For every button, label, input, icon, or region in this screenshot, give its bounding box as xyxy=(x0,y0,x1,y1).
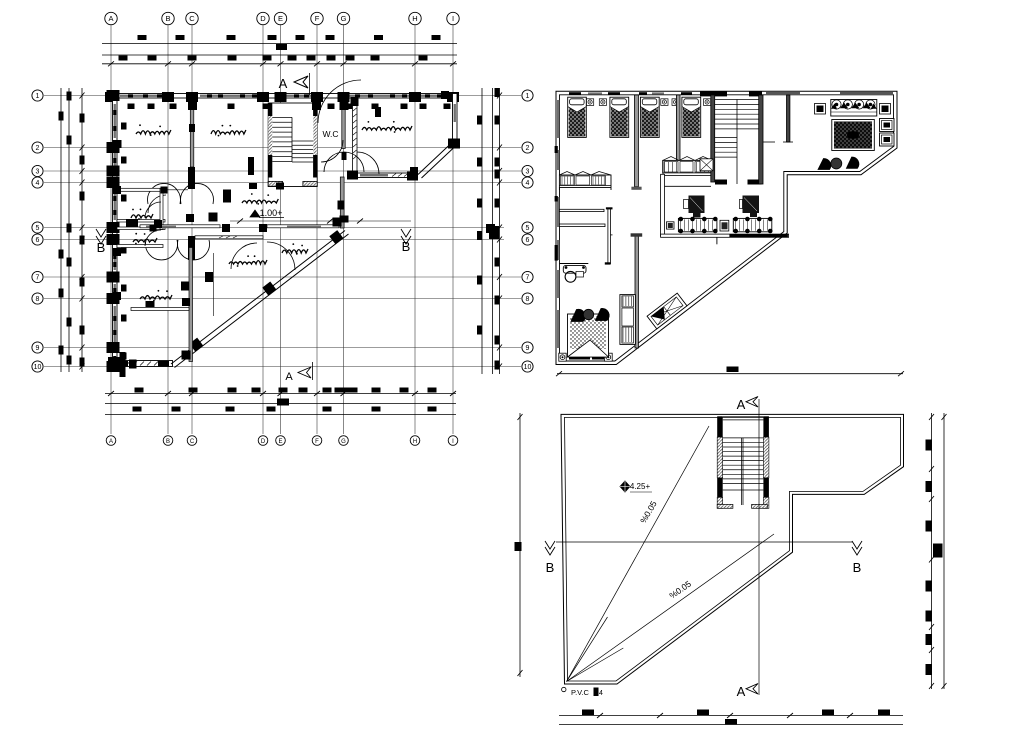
svg-text:B: B xyxy=(546,560,555,575)
WC walls xyxy=(342,98,345,149)
svg-text:P.V.C: P.V.C xyxy=(571,688,590,697)
svg-text:A: A xyxy=(737,684,746,699)
stair left wall xyxy=(268,103,272,116)
guest lower door arc xyxy=(357,152,379,174)
room label guest xyxy=(362,126,412,130)
furnished bottom wall fills xyxy=(569,354,590,360)
svg-text:4: 4 xyxy=(599,690,603,697)
exterior left wall xyxy=(113,94,118,367)
room label bedroom2 xyxy=(211,130,246,134)
svg-text:D: D xyxy=(260,14,266,23)
hall lower wall row5 xyxy=(140,225,220,228)
svg-text:3: 3 xyxy=(526,169,530,176)
guest big door arc xyxy=(318,80,361,123)
svg-text:2: 2 xyxy=(36,145,40,152)
right dimension ticks xyxy=(477,116,482,125)
kitchen top wall xyxy=(195,236,263,239)
top dimension ticks row2 xyxy=(119,56,128,61)
cabinet row above dining xyxy=(663,160,713,173)
bedroom partition wall 1 xyxy=(635,95,639,187)
door jamb black bar lower xyxy=(188,236,195,260)
svg-text:A: A xyxy=(109,439,113,445)
svg-text:C: C xyxy=(190,439,195,445)
svg-text:I: I xyxy=(452,14,454,23)
top wall inner ticks xyxy=(128,104,135,110)
svg-text:W.C: W.C xyxy=(322,129,338,139)
top dimension lines xyxy=(102,43,457,45)
door arc bedroom1 small xyxy=(148,195,166,213)
svg-text:5: 5 xyxy=(36,225,40,232)
roof slope line 4 xyxy=(567,648,624,682)
svg-text:1: 1 xyxy=(526,93,530,100)
left dimension ticks xyxy=(59,112,64,121)
roof section line A xyxy=(758,399,760,695)
carpet living room xyxy=(832,120,875,151)
door jamb black bar upper xyxy=(188,167,195,189)
armchair right 1 xyxy=(880,119,895,132)
svg-text:7: 7 xyxy=(526,275,530,282)
svg-text:H: H xyxy=(413,439,417,445)
grid bubbles top A-I xyxy=(105,12,117,24)
room label bath1 xyxy=(131,214,153,218)
guest room bottom wall xyxy=(351,173,416,178)
sofa side table left xyxy=(815,104,826,115)
grid bubbles right 1-10 xyxy=(522,90,533,101)
section marker B left xyxy=(96,229,106,244)
svg-text:D: D xyxy=(261,439,266,445)
svg-text:9: 9 xyxy=(36,345,40,352)
stair treads furnished xyxy=(715,99,759,101)
bottom dimension ticks row2 xyxy=(133,407,142,412)
svg-text:B: B xyxy=(165,14,170,23)
left wall inner ticks xyxy=(121,123,127,130)
left wall window dashes xyxy=(113,110,116,115)
stair treads xyxy=(272,116,292,118)
roof left dimension line xyxy=(519,413,521,677)
roof stairwell left wall xyxy=(717,416,723,437)
roof slope line 2 xyxy=(567,534,775,682)
grid bubbles left 1-10 xyxy=(32,90,43,101)
roof outline outer xyxy=(561,414,904,684)
svg-text:1.00+: 1.00+ xyxy=(260,208,283,218)
svg-text:6: 6 xyxy=(526,237,530,244)
svg-text:G: G xyxy=(341,439,346,445)
dining bench 1 xyxy=(678,218,717,231)
toilet counter and sink xyxy=(559,263,588,265)
dining small square left xyxy=(667,222,675,229)
pouf fan right xyxy=(846,157,858,168)
exterior top wall xyxy=(113,94,457,99)
svg-text:3: 3 xyxy=(36,169,40,176)
svg-text:E: E xyxy=(278,439,282,445)
top dimension ticks row1 xyxy=(138,35,147,40)
furnished bottom dimension line xyxy=(557,373,903,375)
top wall window dashes xyxy=(128,94,133,97)
big bed bottom xyxy=(568,314,609,357)
dining bench 2 xyxy=(733,218,772,231)
living room wall xyxy=(787,95,790,142)
room label bedroom3 xyxy=(140,295,172,299)
svg-text:4.25+: 4.25+ xyxy=(630,482,651,491)
roof slope line 1 xyxy=(567,426,710,682)
interior junction blobs xyxy=(223,190,231,203)
roof stairwell right wall xyxy=(763,416,769,437)
roof stairwell top landing lines xyxy=(723,416,764,418)
roof right dim ticks xyxy=(926,440,933,451)
mid partition walls xyxy=(635,234,638,348)
roof PVC drain xyxy=(562,687,566,691)
svg-text:E: E xyxy=(278,14,283,23)
roof marker B right xyxy=(852,541,862,555)
wall head blobs xyxy=(188,97,197,110)
roof bottom dimension lines xyxy=(559,715,903,717)
hall entry double door bulb xyxy=(324,152,344,172)
wardrobe left xyxy=(559,175,611,188)
svg-text:1: 1 xyxy=(36,93,40,100)
toilet room walls xyxy=(559,209,604,211)
svg-text:B: B xyxy=(166,439,170,445)
furnished plan outline outer xyxy=(556,91,897,364)
svg-text:B: B xyxy=(402,239,411,254)
top wall columns xyxy=(105,92,117,102)
svg-text:A: A xyxy=(279,76,288,91)
svg-text:F: F xyxy=(315,14,320,23)
section marker B right xyxy=(401,229,411,244)
poufs above bed xyxy=(571,309,585,321)
dresser xyxy=(620,295,636,345)
small closet under stairs xyxy=(700,159,713,171)
door bulb bedroom 1-2 xyxy=(148,183,181,204)
svg-text:6: 6 xyxy=(36,237,40,244)
room label veranda xyxy=(282,249,308,253)
hall right wall xyxy=(340,177,344,228)
furnished plan outline inner xyxy=(560,95,894,361)
armchair right 2 xyxy=(880,133,895,146)
svg-text:F: F xyxy=(315,439,319,445)
svg-text:B: B xyxy=(853,560,862,575)
dining table 2 xyxy=(743,196,760,214)
guest room right wall xyxy=(453,94,458,144)
door bulb lower xyxy=(146,240,178,260)
svg-text:4: 4 xyxy=(36,180,40,187)
room label kitchen xyxy=(229,260,267,264)
pouf fan left xyxy=(818,158,831,169)
nightstands xyxy=(587,99,594,106)
sofa side table right xyxy=(880,104,891,115)
bathroom door arcs xyxy=(145,202,161,218)
roof stair treads xyxy=(723,437,764,439)
bed 3 xyxy=(640,97,659,137)
roof slope line 3 xyxy=(567,617,608,682)
hall inner dim line xyxy=(230,220,411,222)
furnished left wall window fills xyxy=(557,100,559,138)
roof level mark 4.25 xyxy=(620,481,630,492)
left wall columns xyxy=(107,90,120,101)
svg-text:G: G xyxy=(341,14,347,23)
bottom-left exterior wall xyxy=(113,361,173,367)
veranda diagonal wall xyxy=(171,231,345,365)
kitchen door arc xyxy=(231,243,257,269)
roof stairwell feet xyxy=(717,504,733,508)
svg-text:10: 10 xyxy=(34,364,42,371)
corner column below wall xyxy=(120,352,126,377)
furnished top wall fills xyxy=(569,92,581,95)
svg-text:A: A xyxy=(285,371,293,383)
svg-text:C: C xyxy=(189,14,195,23)
svg-text:H: H xyxy=(412,14,417,23)
svg-text:7: 7 xyxy=(36,275,40,282)
dining room walls xyxy=(661,174,665,236)
shoe rack on diagonal xyxy=(647,293,687,329)
bottom dimension ticks row1 xyxy=(135,388,144,393)
svg-text:4: 4 xyxy=(526,180,530,187)
guest room left wall xyxy=(353,99,358,180)
svg-text:2: 2 xyxy=(526,145,530,152)
bedroom3 wall xyxy=(131,308,189,311)
stair right wall xyxy=(313,103,317,116)
svg-text:A: A xyxy=(737,397,746,412)
roof marker B left xyxy=(545,541,555,555)
floor plan grid - horizontal axis lines xyxy=(44,95,521,97)
stairwell furnished right wall xyxy=(759,95,763,184)
room label bath2 xyxy=(133,238,157,242)
left dimension lines xyxy=(60,88,62,372)
left wall black segments xyxy=(555,146,558,153)
bed 2 xyxy=(610,97,629,137)
right dimension lines xyxy=(481,88,483,374)
roof right dimension lines xyxy=(931,413,933,689)
bathroom walls xyxy=(117,188,165,191)
interior wall C lower xyxy=(189,248,193,362)
dining table 1 xyxy=(689,196,705,214)
svg-text:10: 10 xyxy=(524,364,532,371)
stair bottom wall xyxy=(268,181,282,186)
floor plan grid - vertical axis lines xyxy=(110,25,112,434)
WC door arc xyxy=(321,140,343,162)
pouf circle mid xyxy=(831,158,842,169)
sofa top right xyxy=(831,100,877,117)
kitchen cabinet line xyxy=(213,253,215,316)
bed 1 xyxy=(568,97,587,137)
svg-text:A: A xyxy=(108,14,113,23)
grid bubbles bottom A-I xyxy=(106,436,116,446)
svg-text:9: 9 xyxy=(526,345,530,352)
roof outline inner xyxy=(565,417,901,681)
roof section line B xyxy=(556,541,853,543)
svg-text:B: B xyxy=(97,240,106,255)
dining top wall under cabinets xyxy=(663,173,713,176)
diagonal wall columns xyxy=(189,338,203,352)
bedroom partition wall 2 xyxy=(676,95,680,174)
stairwell furnished left wall xyxy=(711,95,715,182)
room label bedroom1 xyxy=(136,130,171,134)
veranda door arc xyxy=(267,242,295,270)
bed 4 xyxy=(682,97,701,137)
stair block left plan xyxy=(268,103,317,187)
bottom dimension lines xyxy=(105,393,456,395)
interior wall C between bedrooms xyxy=(190,98,194,167)
svg-text:8: 8 xyxy=(526,296,530,303)
guest room chamfer wall xyxy=(422,147,456,179)
svg-text:5: 5 xyxy=(526,225,530,232)
svg-text:8: 8 xyxy=(36,296,40,303)
dining small table mid xyxy=(720,220,729,231)
